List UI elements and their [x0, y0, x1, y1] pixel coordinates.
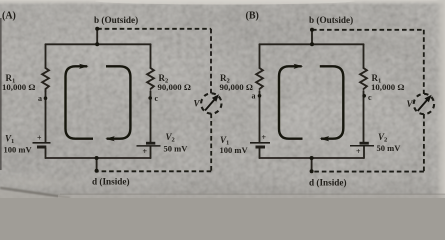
svg-text:50 mV: 50 mV: [377, 143, 402, 153]
svg-text:+: +: [37, 134, 42, 143]
svg-text:c: c: [368, 93, 372, 102]
svg-text:50 mV: 50 mV: [164, 144, 189, 154]
svg-text:d (Inside): d (Inside): [92, 177, 130, 187]
svg-text:a: a: [252, 91, 256, 100]
svg-text:100 mV: 100 mV: [220, 145, 249, 155]
svg-text:+: +: [143, 147, 148, 156]
svg-text:b (Outside): b (Outside): [309, 15, 353, 25]
svg-text:V: V: [407, 99, 414, 109]
svg-text:c: c: [155, 94, 159, 103]
svg-text:(A): (A): [2, 10, 16, 21]
svg-text:+: +: [262, 133, 267, 142]
svg-text:d (Inside): d (Inside): [309, 177, 347, 187]
svg-text:90,000 Ω: 90,000 Ω: [220, 82, 253, 92]
svg-text:b (Outside): b (Outside): [94, 15, 138, 25]
svg-text:+: +: [356, 147, 361, 156]
svg-text:100 mV: 100 mV: [4, 145, 33, 155]
svg-text:(B): (B): [246, 10, 259, 21]
svg-text:90,000 Ω: 90,000 Ω: [158, 82, 191, 92]
svg-text:a: a: [38, 94, 42, 103]
svg-text:10,000 Ω: 10,000 Ω: [371, 82, 404, 92]
svg-text:10,000 Ω: 10,000 Ω: [2, 82, 35, 92]
svg-text:V: V: [194, 99, 201, 109]
